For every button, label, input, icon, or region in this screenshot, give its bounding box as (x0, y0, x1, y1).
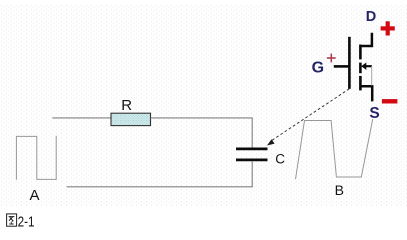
svg-text:G: G (312, 60, 324, 77)
MOSFET Q gate plate (348, 37, 351, 89)
svg-text:D: D (366, 9, 376, 25)
wire top right (151, 117, 253, 119)
MOSFET Q source lead (360, 86, 372, 101)
svg-text:B: B (335, 182, 344, 198)
svg-text:A: A (30, 187, 40, 204)
svg-text:C: C (275, 152, 285, 167)
wire capacitor top lead (251, 118, 253, 148)
MOSFET Q body-source connection (371, 66, 373, 85)
capacitor C (236, 149, 268, 160)
plus sign at gate (327, 54, 336, 63)
caption glyph 图 (7, 214, 17, 226)
MOSFET Q drain lead (360, 33, 372, 46)
wire bottom (67, 186, 253, 188)
minus sign at source (382, 99, 398, 103)
wire top left (52, 117, 111, 119)
dashed coupling arrow (267, 89, 349, 146)
svg-text:S: S (369, 105, 379, 122)
MOSFET Q gate lead (334, 65, 350, 68)
waveform B (296, 119, 373, 179)
svg-text:2-1: 2-1 (18, 214, 35, 231)
wire capacitor bottom lead (251, 161, 253, 187)
waveform A (16, 136, 56, 180)
svg-text:R: R (121, 97, 132, 114)
plus sign at drain (381, 21, 395, 35)
MOSFET Q body arrow (361, 63, 372, 70)
MOSFET Q channel segments (359, 45, 362, 91)
resistor R (111, 113, 151, 125)
